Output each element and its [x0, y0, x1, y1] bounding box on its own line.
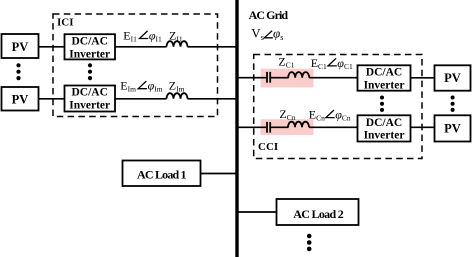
- wire coil Z_I1 to bus: [188, 46, 238, 48]
- capacitor C1: [266, 72, 268, 83]
- svg-text:PV: PV: [12, 93, 29, 107]
- svg-text:PV: PV: [444, 122, 461, 136]
- svg-text:ZI1: ZI1: [169, 28, 183, 43]
- dots between inverter U1 and U2: [88, 63, 92, 80]
- svg-text:ICI: ICI: [57, 17, 74, 29]
- wire capacitor Cn to coil Z_Cn: [271, 126, 289, 128]
- svg-text:ZC1: ZC1: [278, 55, 294, 70]
- svg-text:AC Load 1: AC Load 1: [137, 168, 187, 182]
- svg-text:PV: PV: [12, 40, 29, 54]
- pink highlight Z_C1: [261, 69, 314, 88]
- svg-text:DC/AC: DC/AC: [71, 87, 107, 99]
- svg-text:Inverter: Inverter: [69, 100, 110, 112]
- wire coil Z_C1 to inverter U3: [309, 77, 357, 79]
- svg-text:DC/AC: DC/AC: [366, 67, 402, 79]
- dots between inverter U3 and U4: [380, 96, 384, 112]
- inverter U1 DC/AC: [65, 34, 116, 59]
- dots between PV3 and PV4: [451, 96, 455, 112]
- svg-text:ZCn: ZCn: [279, 107, 295, 122]
- inductor Z_C1: [288, 72, 309, 78]
- wire bus to AC Load 2: [237, 211, 277, 213]
- wire inverter U3 to PV3: [411, 77, 435, 79]
- svg-text:Inverter: Inverter: [364, 130, 405, 142]
- AC Load 1 box: [123, 161, 201, 187]
- svg-text:Inverter: Inverter: [364, 79, 405, 91]
- bus AC grid (thick vertical line): [235, 0, 238, 257]
- AC Load 2 box: [277, 199, 359, 225]
- PV box PV3: [435, 65, 471, 90]
- inverter U3 DC/AC: [358, 65, 411, 90]
- svg-text:ECn: ECn: [309, 107, 325, 122]
- dashed box ICI: [53, 14, 218, 117]
- dots below AC Load 2: [307, 234, 312, 252]
- wire coil Z_Im to bus: [188, 98, 238, 100]
- wire bus to capacitor C1: [237, 77, 266, 79]
- wire PV1 to inverter U1: [39, 46, 65, 48]
- svg-text:CCI: CCI: [258, 141, 278, 153]
- svg-text:φs: φs: [273, 26, 283, 43]
- svg-text:EC1: EC1: [311, 56, 327, 71]
- capacitor Cn: [266, 122, 268, 133]
- PV box PV4: [435, 115, 471, 141]
- inverter U4 DC/AC: [358, 115, 411, 141]
- svg-text:DC/AC: DC/AC: [366, 117, 402, 129]
- wire inverter U2 to coil Z_Im: [115, 98, 167, 100]
- wire inverter U1 to coil Z_I1: [115, 46, 167, 48]
- wire AC Load 1 to bus: [201, 173, 238, 175]
- wire inverter U4 to PV4: [411, 126, 435, 128]
- wire coil Z_Cn to inverter U4: [309, 126, 358, 128]
- PV box PV1: [2, 34, 39, 58]
- svg-text:AC Grid: AC Grid: [249, 8, 289, 22]
- svg-text:ZIm: ZIm: [169, 79, 185, 94]
- svg-text:EI1: EI1: [123, 28, 137, 43]
- wire capacitor C1 to coil Z_C1: [271, 77, 289, 79]
- svg-text:EIm: EIm: [120, 79, 136, 94]
- svg-text:Inverter: Inverter: [69, 48, 110, 60]
- svg-text:DC/AC: DC/AC: [71, 35, 107, 47]
- pink highlight Z_Cn: [261, 119, 314, 135]
- inductor Z_Im: [167, 93, 188, 99]
- inverter U2 DC/AC: [65, 86, 116, 112]
- inductor Z_I1: [167, 41, 188, 47]
- inductor Z_Cn: [288, 122, 309, 128]
- wire PV2 to inverter U2: [39, 98, 65, 100]
- svg-text:φC1: φC1: [337, 56, 353, 71]
- svg-text:φI1: φI1: [149, 28, 162, 43]
- svg-text:φCn: φCn: [335, 107, 351, 122]
- dashed box CCI: [254, 55, 422, 159]
- svg-text:φIm: φIm: [148, 79, 163, 94]
- svg-text:AC Load 2: AC Load 2: [293, 207, 344, 221]
- svg-text:Vs: Vs: [251, 26, 264, 43]
- wire bus to capacitor Cn: [237, 126, 266, 128]
- PV box PV2: [2, 87, 39, 111]
- dots between PV1 and PV2: [16, 63, 20, 80]
- svg-text:PV: PV: [444, 71, 461, 85]
